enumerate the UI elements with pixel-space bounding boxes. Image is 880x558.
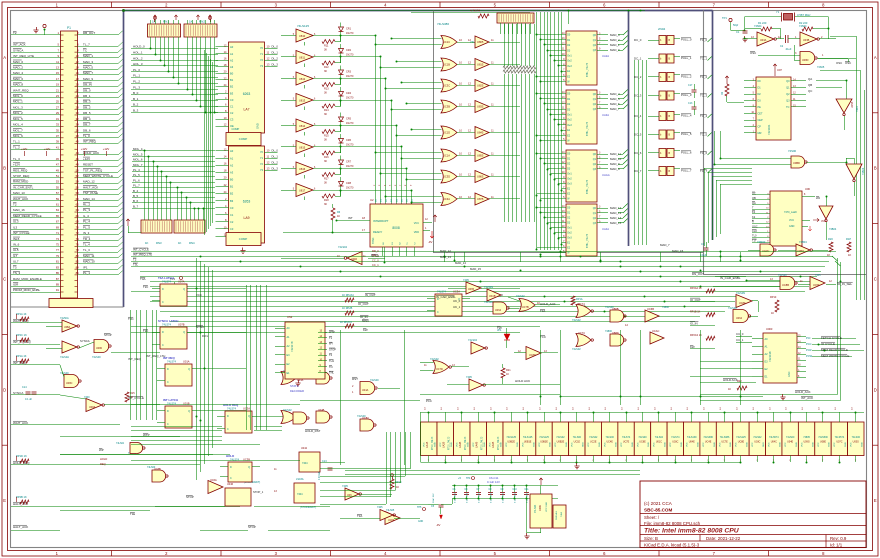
svg-text:TP5: TP5 <box>417 506 422 509</box>
svg-text:4.7K R4: 4.7K R4 <box>470 9 481 13</box>
svg-text:TR_4: TR_4 <box>83 237 91 241</box>
svg-text:D: D <box>227 415 229 418</box>
svg-text:RP1A 1K: RP1A 1K <box>16 312 27 316</box>
svg-text:74LS02: 74LS02 <box>572 348 581 351</box>
svg-text:UAGA: UAGA <box>602 173 610 177</box>
svg-text:C: C <box>227 428 229 431</box>
svg-text:DB_1: DB_1 <box>83 94 91 98</box>
svg-text:74LS74: 74LS74 <box>162 280 172 284</box>
svg-text:TL_3: TL_3 <box>83 248 90 252</box>
svg-text:U04D: U04D <box>351 258 357 261</box>
svg-text:RVcc: RVcc <box>202 334 209 338</box>
svg-text:74LS74: 74LS74 <box>162 323 172 327</box>
svg-text:MOL_6: MOL_6 <box>133 158 143 162</box>
svg-text:+12V: +12V <box>83 157 90 161</box>
svg-text:Y1: Y1 <box>260 156 264 160</box>
svg-text:MAD_5: MAD_5 <box>83 65 93 69</box>
svg-text:74LS386: 74LS386 <box>703 436 713 439</box>
svg-text:UA1B: UA1B <box>426 441 429 448</box>
svg-text:Date: 2021-12-22: Date: 2021-12-22 <box>706 536 741 541</box>
svg-text:U817: U817 <box>299 188 306 192</box>
svg-text:DC_4: DC_4 <box>634 114 642 118</box>
svg-text:MAD_7: MAD_7 <box>660 243 670 247</box>
svg-text:MAD_11: MAD_11 <box>610 152 621 156</box>
svg-text:DL_3: DL_3 <box>272 166 279 170</box>
svg-text:RP2B 1K: RP2B 1K <box>16 495 27 499</box>
svg-text:DB_2: DB_2 <box>83 105 91 109</box>
svg-text:74LS161: 74LS161 <box>767 124 771 135</box>
svg-text:R15: R15 <box>130 392 135 395</box>
svg-text:C2: C2 <box>230 111 234 115</box>
svg-text:UC4E: UC4E <box>606 441 613 444</box>
svg-text:U835: U835 <box>477 105 484 109</box>
svg-text:HOL_3: HOL_3 <box>133 62 143 66</box>
svg-text:DC_3: DC_3 <box>634 94 642 98</box>
svg-text:D: D <box>167 410 169 413</box>
svg-text:DL_0: DL_0 <box>272 44 279 48</box>
svg-text:REQ: REQ <box>100 462 106 466</box>
svg-text:R18: R18 <box>324 199 329 202</box>
svg-text:49: 49 <box>56 168 60 172</box>
svg-text:CEP: CEP <box>758 119 763 122</box>
svg-text:LS03A: LS03A <box>296 478 304 481</box>
svg-text:MAD_13: MAD_13 <box>13 191 25 195</box>
svg-text:14: 14 <box>76 65 80 69</box>
svg-text:+12V: +12V <box>21 147 28 151</box>
svg-text:GND: GND <box>566 442 568 447</box>
svg-text:Y2: Y2 <box>260 58 264 62</box>
svg-text:DL_2: DL_2 <box>272 56 279 60</box>
svg-text:1K RP2B: 1K RP2B <box>342 307 353 310</box>
svg-text:MAD_0: MAD_0 <box>13 60 23 64</box>
svg-text:11: 11 <box>56 60 59 64</box>
svg-text:UC8B: UC8B <box>782 283 789 287</box>
svg-text:33: 33 <box>56 123 60 127</box>
svg-text:Oe1: Oe1 <box>567 54 572 57</box>
svg-text:40: 40 <box>76 140 80 144</box>
svg-text:MAD_14: MAD_14 <box>83 197 95 201</box>
svg-text:MOL_7: MOL_7 <box>13 128 23 132</box>
svg-text:1K: 1K <box>189 20 193 24</box>
svg-text:-9V: -9V <box>436 523 440 527</box>
svg-text:GND: GND <box>788 371 791 377</box>
svg-text:73: 73 <box>56 237 60 241</box>
svg-text:UC1A: UC1A <box>443 154 450 158</box>
svg-text:HOLD_RST: HOLD_RST <box>305 429 321 433</box>
svg-text:C1: C1 <box>230 104 234 108</box>
svg-text:U05B: U05B <box>851 101 854 108</box>
svg-text:T2: T2 <box>13 31 17 35</box>
svg-text:U042: U042 <box>301 447 308 450</box>
svg-text:7405: 7405 <box>342 484 348 488</box>
svg-text:CET: CET <box>758 113 763 116</box>
svg-text:74B04: 74B04 <box>799 240 807 244</box>
svg-text:U815: U815 <box>299 145 306 149</box>
svg-text:T3: T3 <box>13 265 17 269</box>
svg-text:COMP: COMP <box>232 127 240 131</box>
svg-text:UC3B: UC3B <box>443 105 450 109</box>
svg-text:Oe2: Oe2 <box>567 60 572 63</box>
svg-text:1K: 1K <box>178 241 182 245</box>
svg-text:SBC-85.COM: SBC-85.COM <box>644 508 673 513</box>
svg-text:RP1D 1K: RP1D 1K <box>16 454 27 458</box>
svg-text:SYNCA: SYNCA <box>13 391 23 395</box>
svg-text:GND: GND <box>468 442 470 447</box>
svg-text:SYNCA: SYNCA <box>13 48 23 52</box>
svg-text:Oe3: Oe3 <box>567 237 572 240</box>
svg-text:C17: C17 <box>688 84 693 87</box>
svg-text:U04B: U04B <box>318 409 325 412</box>
svg-text:PE: PE <box>758 106 762 109</box>
svg-text:C: C <box>437 311 439 314</box>
svg-text:74L50N: 74L50N <box>484 285 493 289</box>
svg-text:74LS02: 74LS02 <box>589 436 598 439</box>
svg-text:RP2A4 1K: RP2A4 1K <box>690 287 702 290</box>
svg-text:PL_6: PL_6 <box>133 178 140 182</box>
svg-text:53: 53 <box>56 180 60 184</box>
svg-text:74L50A: 74L50A <box>60 317 69 320</box>
svg-text:FETCH CYCLE: FETCH CYCLE <box>821 336 842 340</box>
svg-text:U815: U815 <box>477 63 484 67</box>
svg-text:U0BO: U0BO <box>797 249 804 253</box>
svg-text:T3L: T3L <box>133 263 138 267</box>
svg-text:DC_6: DC_6 <box>634 151 642 155</box>
svg-text:UA2B: UA2B <box>442 441 445 448</box>
svg-text:1N270: 1N270 <box>346 75 354 78</box>
svg-text:A3: A3 <box>230 65 234 69</box>
svg-text:Title: Intel imm8-82 8008 CPU: Title: Intel imm8-82 8008 CPU <box>644 528 740 535</box>
svg-text:GND: GND <box>435 442 437 447</box>
svg-text:74LS0N: 74LS0N <box>736 292 745 295</box>
svg-text:MOL_2: MOL_2 <box>13 111 23 115</box>
svg-text:64: 64 <box>76 208 80 212</box>
svg-text:TC_1: TC_1 <box>700 57 707 61</box>
svg-text:TL0: TL0 <box>752 234 757 238</box>
svg-text:74LS0J: 74LS0J <box>116 442 125 445</box>
svg-text:3K: 3K <box>324 92 327 95</box>
svg-text:HOLD_ACK: HOLD_ACK <box>540 302 556 306</box>
svg-text:MOL_7: MOL_7 <box>133 163 143 167</box>
svg-text:U03A: U03A <box>760 39 767 42</box>
svg-text:U07C: U07C <box>836 441 842 444</box>
svg-text:IL3: IL3 <box>13 225 18 229</box>
svg-text:D: D <box>167 368 169 371</box>
svg-text:STOP_1: STOP_1 <box>253 490 264 494</box>
svg-text:PL_7: PL_7 <box>133 184 140 188</box>
svg-text:U003: U003 <box>766 327 773 331</box>
svg-text:Sheet: /: Sheet: / <box>644 515 660 520</box>
svg-text:GND: GND <box>845 442 847 447</box>
svg-text:R15: R15 <box>324 135 329 138</box>
svg-text:U08E: U08E <box>820 441 826 444</box>
svg-text:74LS04: 74LS04 <box>468 338 478 342</box>
svg-text:51: 51 <box>56 174 60 178</box>
svg-text:PL_1: PL_1 <box>133 74 140 78</box>
svg-text:R13: R13 <box>324 88 329 91</box>
svg-text:74LS125: 74LS125 <box>506 436 516 439</box>
svg-text:UC6A: UC6A <box>388 519 395 522</box>
svg-text:Q: Q <box>248 466 250 469</box>
svg-text:Oe3: Oe3 <box>567 183 572 186</box>
svg-text:74LS386: 74LS386 <box>437 22 449 26</box>
svg-text:COMP: COMP <box>239 137 248 141</box>
svg-text:GND: GND <box>829 442 831 447</box>
svg-text:1K: 1K <box>152 20 156 24</box>
svg-text:80: 80 <box>76 254 80 258</box>
svg-text:MAD_9: MAD_9 <box>610 162 620 166</box>
svg-text:74LS02: 74LS02 <box>516 295 525 298</box>
svg-text:74LS02: 74LS02 <box>430 358 439 361</box>
svg-text:CC_0: CC_0 <box>372 258 379 262</box>
svg-text:32: 32 <box>76 117 80 121</box>
svg-text:TC_4: TC_4 <box>700 114 707 118</box>
svg-text:74LS125: 74LS125 <box>297 24 309 28</box>
svg-text:79: 79 <box>56 254 60 258</box>
svg-text:PCI: PCI <box>806 336 811 340</box>
svg-text:A2: A2 <box>230 163 234 167</box>
svg-text:-9V: -9V <box>428 240 432 244</box>
svg-text:INT_REQ: INT_REQ <box>83 140 97 144</box>
svg-text:VDD: VDD <box>414 231 419 234</box>
svg-text:74LS574: 74LS574 <box>835 436 845 439</box>
svg-text:MOL_5: MOL_5 <box>133 152 143 156</box>
svg-text:74LS00: 74LS00 <box>484 301 493 304</box>
svg-text:UL3: UL3 <box>13 220 19 224</box>
svg-text:Oe1: Oe1 <box>567 227 572 230</box>
svg-text:91: 91 <box>56 288 60 292</box>
svg-text:Y1: Y1 <box>260 52 264 56</box>
svg-text:60: 60 <box>76 197 80 201</box>
svg-text:MAD_3: MAD_3 <box>83 60 93 64</box>
svg-text:78: 78 <box>76 248 80 252</box>
svg-text:PL_3: PL_3 <box>83 208 90 212</box>
svg-text:UC7E: UC7E <box>623 441 630 444</box>
svg-text:74LS00: 74LS00 <box>605 306 614 309</box>
svg-text:INT_IN_REQ: INT_IN_REQ <box>13 340 31 344</box>
svg-text:CR4: CR4 <box>346 92 352 95</box>
svg-text:74LS20: 74LS20 <box>778 274 787 277</box>
svg-text:7404: 7404 <box>561 511 563 517</box>
svg-text:TS_3: TS_3 <box>13 271 21 275</box>
svg-text:U006: U006 <box>539 505 542 511</box>
svg-text:C: C <box>874 277 877 282</box>
svg-text:74B04: 74B04 <box>829 228 837 231</box>
svg-text:T3A LATCH: T3A LATCH <box>158 276 174 280</box>
svg-text:MEM_WRITE_CYCLE: MEM_WRITE_CYCLE <box>83 174 113 178</box>
svg-text:17: 17 <box>56 77 60 81</box>
svg-text:GND: GND <box>550 442 552 447</box>
svg-text:GND: GND <box>632 442 634 447</box>
svg-text:PULL_3: PULL_3 <box>681 93 692 97</box>
svg-text:31: 31 <box>56 117 60 121</box>
svg-text:U0B2E: U0B2E <box>557 441 565 444</box>
svg-text:PL_5: PL_5 <box>83 225 90 229</box>
svg-text:RL_2: RL_2 <box>83 203 91 207</box>
svg-text:GND: GND <box>533 442 535 447</box>
svg-text:PCC: PCC <box>806 342 812 346</box>
svg-text:DB_IN: DB_IN <box>83 83 92 87</box>
svg-text:MOL_4: MOL_4 <box>133 147 143 151</box>
svg-text:U845: U845 <box>477 131 484 135</box>
svg-text:C14: C14 <box>22 386 27 389</box>
svg-text:74LS02: 74LS02 <box>572 319 581 322</box>
svg-text:GND: GND <box>648 442 650 447</box>
svg-text:U865: U865 <box>477 175 484 179</box>
svg-text:1K: 1K <box>145 241 149 245</box>
svg-text:INT_REQ_LITE: INT_REQ_LITE <box>13 54 34 58</box>
svg-text:MOL_3: MOL_3 <box>13 105 23 109</box>
svg-text:DB_OUT: DB_OUT <box>83 31 95 35</box>
svg-text:(c) 2021 CCA: (c) 2021 CCA <box>644 501 673 506</box>
svg-text:DN_OUT: DN_OUT <box>692 272 704 276</box>
svg-text:MAD_6: MAD_6 <box>13 77 23 81</box>
svg-text:QB: QB <box>808 83 812 87</box>
svg-text:83: 83 <box>56 265 60 269</box>
svg-text:0.1uF 12V: 0.1uF 12V <box>487 480 500 484</box>
svg-text:38: 38 <box>76 134 80 138</box>
svg-text:U2: U2 <box>370 198 374 202</box>
svg-text:8008: 8008 <box>392 226 400 230</box>
svg-text:76: 76 <box>76 243 80 247</box>
svg-text:C: C <box>167 423 169 426</box>
svg-text:IOR: IOR <box>13 282 19 286</box>
svg-text:B2: B2 <box>230 85 234 89</box>
svg-text:DB_3: DB_3 <box>83 100 91 104</box>
svg-text:15: 15 <box>56 71 60 75</box>
svg-text:U08D: U08D <box>802 59 809 62</box>
svg-text:TC_6: TC_6 <box>700 151 707 155</box>
svg-text:Oe2: Oe2 <box>567 232 572 235</box>
svg-text:46: 46 <box>76 157 80 161</box>
svg-text:B_4: B_4 <box>133 189 139 193</box>
svg-text:74S04: 74S04 <box>799 24 807 28</box>
svg-text:TC_0: TC_0 <box>700 38 707 42</box>
svg-text:TL_2: TL_2 <box>13 145 20 149</box>
svg-text:WAIT_REQ: WAIT_REQ <box>13 88 29 92</box>
svg-text:8T6L_74L73: 8T6L_74L73 <box>586 62 589 77</box>
svg-text:1K: 1K <box>848 253 851 257</box>
svg-text:74LS74: 74LS74 <box>230 458 240 462</box>
svg-text:CC_0: CC_0 <box>736 332 744 336</box>
svg-text:7470_Latch: 7470_Latch <box>784 211 798 214</box>
svg-text:MAD_12: MAD_12 <box>440 249 451 253</box>
svg-text:OSC: OSC <box>836 61 842 65</box>
svg-text:CR7: CR7 <box>346 161 352 164</box>
svg-text:A: A <box>3 55 6 60</box>
svg-text:58: 58 <box>76 191 80 195</box>
svg-text:UC7E: UC7E <box>721 441 728 444</box>
svg-text:MAD_15: MAD_15 <box>610 221 622 225</box>
svg-text:MAD_12: MAD_12 <box>83 180 95 184</box>
svg-text:GND: GND <box>599 442 601 447</box>
svg-text:GND: GND <box>796 442 798 447</box>
svg-text:U825: U825 <box>477 84 484 88</box>
svg-text:PL_5: PL_5 <box>133 173 140 177</box>
svg-text:25: 25 <box>56 100 60 104</box>
svg-text:22uF 15V: 22uF 15V <box>433 493 435 503</box>
svg-text:DB_7: DB_7 <box>83 123 91 127</box>
svg-text:PL_2: PL_2 <box>133 80 140 84</box>
svg-text:B_0: B_0 <box>133 91 139 95</box>
svg-text:35: 35 <box>56 128 60 132</box>
svg-text:74LS00: 74LS00 <box>147 466 156 469</box>
svg-text:MAD_14: MAD_14 <box>610 216 622 220</box>
svg-text:68: 68 <box>76 220 80 224</box>
svg-text:1K RP2A4: 1K RP2A4 <box>342 294 354 297</box>
svg-text:U065: U065 <box>468 288 475 291</box>
svg-text:INT_REQ_LTE: INT_REQ_LTE <box>133 253 152 257</box>
svg-text:66: 66 <box>76 214 80 218</box>
svg-text:UC3A: UC3A <box>443 197 450 201</box>
svg-text:DL_1: DL_1 <box>272 154 279 158</box>
svg-text:MOL_1: MOL_1 <box>13 100 23 104</box>
svg-text:B1: B1 <box>230 78 234 82</box>
svg-text:Y3: Y3 <box>260 64 264 68</box>
svg-text:CC_1: CC_1 <box>372 263 379 267</box>
svg-text:KW: KW <box>363 328 368 332</box>
svg-text:UC8D: UC8D <box>529 354 536 357</box>
svg-text:74LS74: 74LS74 <box>671 436 680 439</box>
svg-text:B2: B2 <box>230 192 234 196</box>
svg-text:UA2A: UA2A <box>602 54 609 58</box>
svg-text:74805: 74805 <box>803 436 810 439</box>
svg-text:A0: A0 <box>230 45 234 49</box>
svg-text:U03C: U03C <box>672 441 678 444</box>
svg-text:74LS125: 74LS125 <box>539 436 549 439</box>
svg-text:GND: GND <box>256 123 260 129</box>
svg-text:T3C: T3C <box>128 317 135 321</box>
svg-text:MAD_3: MAD_3 <box>610 33 620 37</box>
svg-text:82: 82 <box>76 260 80 264</box>
svg-text:HOLD_ACK: HOLD_ACK <box>83 151 99 155</box>
svg-text:74LS00: 74LS00 <box>606 436 615 439</box>
svg-text:GND: GND <box>681 442 683 447</box>
svg-text:74LS74: 74LS74 <box>167 360 177 364</box>
svg-text:C: C <box>162 301 164 304</box>
svg-text:INT_CYCLE: INT_CYCLE <box>133 248 149 252</box>
svg-text:7405: 7405 <box>466 375 472 379</box>
svg-text:74LS00: 74LS00 <box>370 379 379 382</box>
svg-text:U814: U814 <box>299 124 306 128</box>
svg-text:T3A: T3A <box>540 309 545 313</box>
svg-text:UC7B: UC7B <box>522 306 529 309</box>
svg-text:CR1: CR1 <box>346 28 352 31</box>
svg-text:TP1: TP1 <box>722 16 727 20</box>
svg-text:OSC: OSC <box>750 51 756 55</box>
svg-text:1N270: 1N270 <box>346 122 354 125</box>
svg-text:1N270: 1N270 <box>346 97 354 100</box>
svg-text:D: D <box>3 387 6 392</box>
svg-text:A1: A1 <box>230 52 234 56</box>
svg-text:TL_7: TL_7 <box>83 43 90 47</box>
svg-text:Rev: 0.9: Rev: 0.9 <box>830 536 847 541</box>
svg-text:1K RP2C4: 1K RP2C4 <box>340 321 352 324</box>
svg-text:Oe3: Oe3 <box>567 124 572 127</box>
svg-text:RAM_MOD: RAM_MOD <box>13 180 29 184</box>
svg-text:Y1: Y1 <box>776 10 780 14</box>
svg-text:D: D <box>162 331 164 334</box>
svg-text:8T6L_74L73: 8T6L_74L73 <box>586 179 589 194</box>
svg-text:SYNCA LATCH: SYNCA LATCH <box>158 319 178 323</box>
svg-text:GND: GND <box>812 442 814 447</box>
svg-text:74LS74: 74LS74 <box>227 407 237 411</box>
svg-text:MAD_12: MAD_12 <box>610 206 622 210</box>
svg-text:8T6L_74L73: 8T6L_74L73 <box>586 233 589 248</box>
svg-text:CR6: CR6 <box>346 139 352 142</box>
svg-text:B_5: B_5 <box>133 194 139 198</box>
svg-text:44: 44 <box>76 151 80 155</box>
svg-text:UC3D: UC3D <box>443 175 450 179</box>
